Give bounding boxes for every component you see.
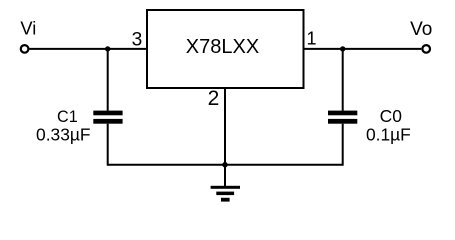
regulator U1 X78LXX body bbox=[147, 10, 304, 88]
ground bbox=[211, 186, 240, 202]
wire output: pin 1 to Vo terminal bbox=[304, 48, 422, 50]
svg-text:1: 1 bbox=[306, 28, 316, 48]
wire C0 bottom to ground rail bbox=[342, 124, 344, 166]
svg-text:0.33µF: 0.33µF bbox=[36, 125, 91, 145]
wire junction down to C0 top bbox=[342, 49, 344, 111]
svg-text:Vi: Vi bbox=[20, 18, 36, 39]
svg-text:3: 3 bbox=[132, 29, 143, 50]
capacitor C1 bbox=[93, 111, 122, 124]
svg-text:X78LXX: X78LXX bbox=[186, 36, 259, 58]
svg-text:Vo: Vo bbox=[410, 19, 432, 40]
wire pin 2 down to rail bbox=[224, 88, 226, 165]
svg-text:C1: C1 bbox=[57, 108, 78, 126]
wire junction down to C1 top bbox=[107, 49, 109, 111]
wire ground rail bbox=[108, 164, 343, 166]
node ground junction bbox=[222, 162, 227, 167]
terminal Vo bbox=[422, 45, 430, 53]
svg-text:C0: C0 bbox=[380, 106, 402, 126]
node output junction bbox=[340, 46, 345, 51]
wire rail junction down to ground symbol bbox=[224, 165, 226, 186]
svg-text:0.1µF: 0.1µF bbox=[366, 125, 411, 145]
terminal Vi bbox=[21, 45, 29, 53]
node input junction bbox=[105, 46, 110, 51]
capacitor C0 bbox=[328, 111, 357, 124]
wire input: Vi terminal to pin 3 bbox=[29, 48, 147, 50]
svg-text:2: 2 bbox=[208, 87, 220, 110]
wire C1 bottom to ground rail bbox=[107, 124, 109, 166]
